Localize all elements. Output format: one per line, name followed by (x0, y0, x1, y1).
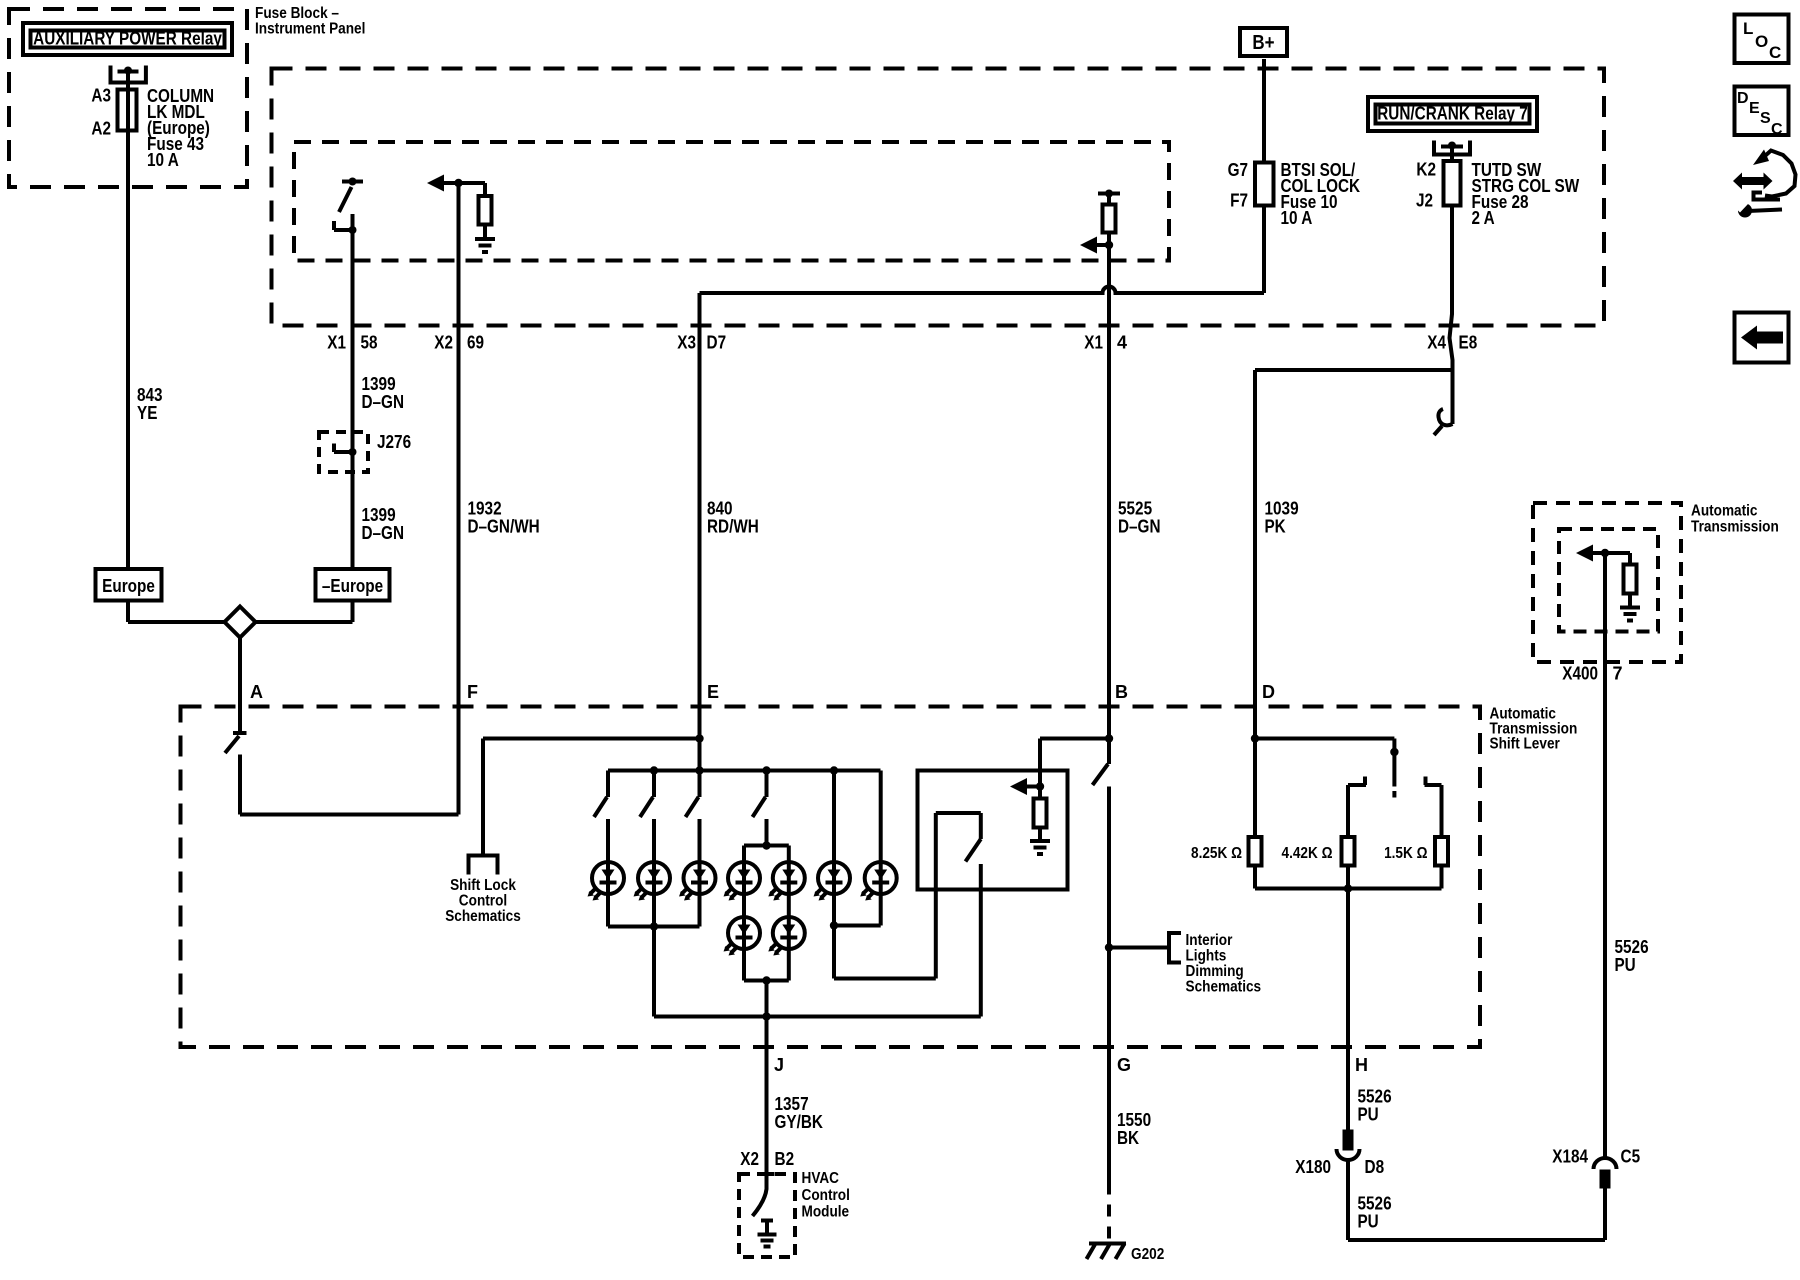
wire 843 fuse43 to Europe (126, 72, 130, 570)
bar LED6 to LED7 (834, 924, 881, 928)
svg-text:G7: G7 (1228, 160, 1248, 180)
junction branch2 at LED return (650, 922, 658, 930)
resistor 4.42K (1342, 837, 1355, 866)
wire 840 RD/WH to E (698, 326, 702, 739)
switch branch 2 (652, 771, 656, 798)
arrow continuation (dimmer) (1010, 778, 1027, 795)
svg-text:X1: X1 (327, 333, 346, 353)
fuse 10 BTSI SOL/COL LOCK (1255, 163, 1274, 206)
svg-text:E8: E8 (1459, 333, 1478, 353)
svg-text:GY/BK: GY/BK (775, 1112, 823, 1132)
junction H (1344, 884, 1352, 892)
svg-text:Europe: Europe (102, 576, 155, 596)
LED 1 (588, 862, 625, 901)
junction rail-654 (650, 766, 658, 774)
svg-text:J2: J2 (1416, 191, 1433, 211)
HVAC control module dashed box (739, 1174, 795, 1257)
svg-text:BK: BK (1117, 1128, 1139, 1148)
join bar branch 4 (744, 979, 789, 983)
svg-text:–Europe: –Europe (322, 576, 383, 596)
switch S1 top contact (342, 180, 363, 184)
svg-text:2 A: 2 A (1472, 208, 1495, 228)
svg-text:G202: G202 (1131, 1246, 1164, 1263)
arrow to shift lock control schematics (fuse block) (427, 175, 444, 192)
switch inside selector box (934, 813, 938, 979)
junction D distribution (1251, 734, 1259, 742)
resistor network bottom rail (1253, 866, 1257, 889)
battery feed B+ (1240, 28, 1287, 56)
fuse 28 TUTD SW (1444, 161, 1461, 206)
automatic transmission inner dashed box (1559, 529, 1658, 632)
stationary contact right (1425, 783, 1442, 787)
open switch throw TUTD (1451, 370, 1455, 424)
svg-text:C5: C5 (1621, 1147, 1641, 1167)
svg-text:C: C (1771, 121, 1783, 138)
svg-text:4: 4 (1117, 333, 1127, 353)
switch branch 4 (765, 771, 769, 798)
resistor (dimmer) (1038, 787, 1042, 799)
svg-text:X1: X1 (1084, 333, 1103, 353)
svg-text:PU: PU (1358, 1105, 1379, 1125)
svg-text:58: 58 (361, 333, 378, 353)
LED 6 (814, 862, 851, 901)
ground (shift lock module) (483, 225, 487, 240)
junction E distribution (695, 734, 703, 742)
svg-text:843: 843 (137, 385, 163, 405)
automatic transmission outer dashed box (1533, 503, 1681, 662)
icon LOC (1735, 15, 1789, 64)
wire X180 to X184 (1346, 1160, 1350, 1240)
svg-text:HVAC: HVAC (802, 1170, 840, 1187)
wire LED6/7 to selector switch (832, 926, 836, 979)
svg-text:O: O (1755, 32, 1768, 51)
svg-text:RUN/CRANK Relay 7: RUN/CRANK Relay 7 (1377, 104, 1528, 124)
svg-text:G: G (1117, 1055, 1131, 1075)
relay label RUN/CRANK Relay 7 (1368, 97, 1537, 131)
svg-text:A2: A2 (91, 119, 111, 139)
svg-text:PK: PK (1265, 517, 1286, 537)
wire LED3 to rail (698, 894, 702, 927)
svg-text:K2: K2 (1416, 160, 1436, 180)
LED 4 (724, 862, 761, 901)
svg-text:1399: 1399 (362, 374, 396, 394)
svg-text:J276: J276 (377, 432, 411, 452)
svg-text:7: 7 (1613, 664, 1623, 684)
svg-text:5526: 5526 (1358, 1087, 1392, 1107)
shift lever dashed box (181, 707, 1481, 1048)
wire branch 2 (652, 819, 656, 862)
resistor (fuse block module) (1103, 205, 1116, 233)
wire AT to X400 (1603, 553, 1607, 662)
svg-text:D8: D8 (1365, 1157, 1385, 1177)
svg-text:Transmission: Transmission (1691, 519, 1779, 536)
icon back arrow (1735, 313, 1789, 363)
wire 5525 to X1 4 (1107, 245, 1111, 326)
stub to long rail (765, 981, 769, 1017)
svg-text:B+: B+ (1252, 32, 1274, 54)
junction diamond (225, 607, 256, 638)
wire J to HVAC (765, 1017, 769, 1175)
svg-text:Shift Lock: Shift Lock (450, 877, 516, 894)
fuse block dashed box (272, 69, 1605, 326)
switch S1 blade (339, 187, 352, 212)
selector switch box (918, 771, 1068, 890)
wire H down (1346, 889, 1350, 1132)
svg-text:Control: Control (459, 893, 507, 910)
svg-text:B: B (1115, 682, 1128, 702)
LED 7 (860, 862, 897, 901)
junction rail-699 (695, 766, 703, 774)
svg-text:Shift Lever: Shift Lever (1490, 736, 1560, 753)
svg-text:X4: X4 (1427, 333, 1446, 353)
svg-text:L: L (1743, 19, 1753, 38)
wire 5526 PU right side (1603, 662, 1607, 1158)
svg-text:Automatic: Automatic (1691, 503, 1758, 520)
switch in HVAC module (753, 1174, 767, 1216)
LED return long rail (654, 1015, 981, 1019)
svg-text:D–GN: D–GN (362, 392, 405, 412)
svg-text:E: E (1749, 100, 1760, 117)
svg-text:5526: 5526 (1615, 937, 1649, 957)
icon DESC (1735, 87, 1789, 136)
junction rail-834 (830, 766, 838, 774)
svg-text:PU: PU (1358, 1212, 1379, 1232)
wire B into box to lamp module (1107, 707, 1111, 765)
svg-text:H: H (1355, 1055, 1368, 1075)
junction rail-766 (762, 766, 770, 774)
wire LED2 to long rail (652, 894, 656, 1017)
junction on 1932 wire (454, 179, 462, 187)
wire branch 5 (832, 771, 836, 863)
svg-text:840: 840 (707, 499, 733, 519)
wire branch 1 (606, 819, 610, 862)
svg-text:69: 69 (467, 333, 484, 353)
LED return rail 1-3 (608, 925, 700, 929)
svg-text:F: F (467, 682, 478, 702)
LED 5 (768, 862, 805, 901)
svg-text:PU: PU (1615, 955, 1636, 975)
connector terminal at fuse 43 top (111, 66, 146, 83)
svg-text:1357: 1357 (775, 1094, 809, 1114)
svg-text:1039: 1039 (1265, 499, 1299, 519)
icon wrench and arrows (1733, 173, 1773, 190)
resistor (automatic transmission) (1628, 553, 1632, 565)
wire D to range switch (1255, 737, 1394, 741)
junction range switch pivot (1390, 748, 1398, 756)
svg-text:1932: 1932 (468, 499, 502, 519)
wire E to shift lock schematics (483, 737, 700, 741)
svg-text:YE: YE (137, 403, 157, 423)
svg-text:A: A (250, 682, 263, 702)
ground in HVAC module (761, 1219, 773, 1223)
svg-text:Schematics: Schematics (1186, 979, 1262, 996)
switch on B branch (1093, 764, 1109, 785)
svg-text:Instrument Panel: Instrument Panel (255, 21, 365, 38)
switch S1 bottom contact (334, 228, 353, 232)
fuse 43 COLUMN LK MDL (118, 90, 137, 131)
wire X4 to 1039 corner (1255, 368, 1453, 372)
wire B+ to fuse 10 (1262, 59, 1266, 163)
LED 8 (724, 917, 761, 956)
arrow continuation (fuse block module) (1080, 237, 1097, 254)
junction interior lights tap (1105, 943, 1113, 951)
svg-text:X2: X2 (740, 1149, 759, 1169)
svg-text:D7: D7 (707, 333, 727, 353)
resistor 8.25K (1249, 837, 1262, 866)
junction dimmer (1036, 782, 1044, 790)
wire diamond to switch A (238, 638, 242, 734)
svg-text:5526: 5526 (1358, 1194, 1392, 1214)
svg-text:X184: X184 (1552, 1147, 1588, 1167)
svg-text:Control: Control (802, 1187, 850, 1204)
switch branch 1 (606, 771, 610, 798)
wire 1932 D-GN/WH to F (457, 326, 461, 815)
ground (dimmer) (1030, 839, 1050, 843)
wire A switch to F wire (238, 755, 242, 815)
LED 2 (634, 862, 671, 901)
wire arrow corner to resistor (483, 183, 487, 196)
svg-text:D: D (1262, 682, 1275, 702)
wire fuse 28 to X4 E8 (1450, 206, 1453, 371)
svg-text:S: S (1760, 110, 1771, 127)
svg-text:X3: X3 (677, 333, 696, 353)
svg-text:AUXILIARY POWER Relay: AUXILIARY POWER Relay (33, 29, 222, 49)
wire D into box (1253, 707, 1257, 838)
svg-text:4.42K Ω: 4.42K Ω (1282, 845, 1333, 862)
wire B branch to G (1107, 787, 1111, 1183)
svg-text:10 A: 10 A (147, 150, 179, 170)
wire branch 3 (698, 819, 702, 862)
arrow continuation (automatic transmission) (1576, 545, 1593, 562)
connector terminal at fuse 28 top (1434, 141, 1470, 155)
splice J276 (319, 432, 368, 472)
svg-text:RD/WH: RD/WH (707, 517, 759, 537)
svg-text:D–GN: D–GN (362, 523, 405, 543)
svg-text:1550: 1550 (1117, 1110, 1151, 1130)
connector to interior lights schematics (1169, 933, 1181, 963)
svg-text:Lights: Lights (1186, 948, 1227, 965)
svg-text:Interior: Interior (1186, 932, 1233, 949)
svg-text:C: C (1769, 43, 1781, 62)
switch from A (233, 731, 247, 735)
svg-text:Module: Module (802, 1204, 850, 1221)
dashed wire to G202 (1107, 1183, 1111, 1248)
ground G202 (1089, 1242, 1126, 1246)
svg-text:X400: X400 (1562, 664, 1598, 684)
svg-text:X180: X180 (1295, 1157, 1331, 1177)
svg-text:10 A: 10 A (1281, 208, 1313, 228)
LED supply rail (608, 769, 881, 773)
range switch wiper (1392, 752, 1396, 787)
wire branch 4 (765, 819, 769, 846)
split bar branch 4 (744, 844, 789, 848)
connector X184 C5 (1602, 1172, 1609, 1187)
svg-text:D: D (1737, 90, 1749, 107)
wire to X3 with hop over 5525 (700, 287, 1265, 294)
tag -Europe (316, 569, 390, 601)
svg-text:D–GN/WH: D–GN/WH (468, 517, 540, 537)
svg-text:1399: 1399 (362, 505, 396, 525)
fuse block inner module dashed box (294, 142, 1169, 261)
svg-text:D–GN: D–GN (1118, 517, 1161, 537)
wire fuse 10 down (1262, 206, 1266, 294)
LED 9 (768, 917, 805, 956)
auxiliary power relay dashed box (9, 9, 247, 187)
svg-text:F7: F7 (1230, 191, 1248, 211)
wire column 4a (742, 846, 746, 863)
svg-text:A3: A3 (91, 86, 111, 106)
svg-text:Schematics: Schematics (445, 908, 521, 925)
svg-text:J: J (774, 1055, 784, 1075)
svg-text:X2: X2 (434, 333, 453, 353)
wire 1932 to X2 69 (457, 183, 461, 326)
wire branch 6 (879, 771, 883, 863)
resistor to ground (fuse block module) top contact (1098, 192, 1120, 196)
LED 3 (679, 862, 716, 901)
wire -Europe to diamond (351, 601, 355, 623)
wire LED1 to rail (606, 894, 610, 927)
resistor (shift lock module) (479, 196, 492, 225)
wire 5525 D-GN to B (1107, 326, 1111, 707)
stationary contact left (1348, 783, 1366, 787)
wire column 4b (787, 846, 791, 863)
svg-text:Dimming: Dimming (1186, 963, 1244, 980)
junction (automatic transmission) (1601, 549, 1609, 557)
tag Europe (96, 569, 162, 601)
wire Europe to diamond (126, 601, 130, 623)
svg-text:Fuse Block –: Fuse Block – (255, 5, 339, 22)
resistor 1.5K (1435, 837, 1448, 866)
junction on 5525 wire (1105, 241, 1113, 249)
wire to dimmer resistor (1040, 737, 1109, 741)
ground (automatic transmission) (1620, 606, 1640, 610)
wire 1399 S1 to -Europe (351, 214, 355, 569)
connector to shift lock schematics (469, 856, 498, 875)
svg-text:5525: 5525 (1118, 499, 1152, 519)
svg-text:B2: B2 (775, 1149, 795, 1169)
wire E to LED rail (698, 739, 702, 771)
switch branch 3 (698, 771, 702, 798)
svg-text:8.25K Ω: 8.25K Ω (1191, 845, 1242, 862)
connector X180 D8 (1345, 1132, 1352, 1149)
junction B distribution (1105, 734, 1113, 742)
wire to interior lights schematics (1109, 946, 1169, 950)
svg-text:1.5K Ω: 1.5K Ω (1384, 845, 1428, 862)
junction LED6/7 (830, 921, 838, 929)
relay label: AUXILIARY POWER Relay (23, 23, 232, 55)
svg-text:E: E (707, 682, 719, 702)
